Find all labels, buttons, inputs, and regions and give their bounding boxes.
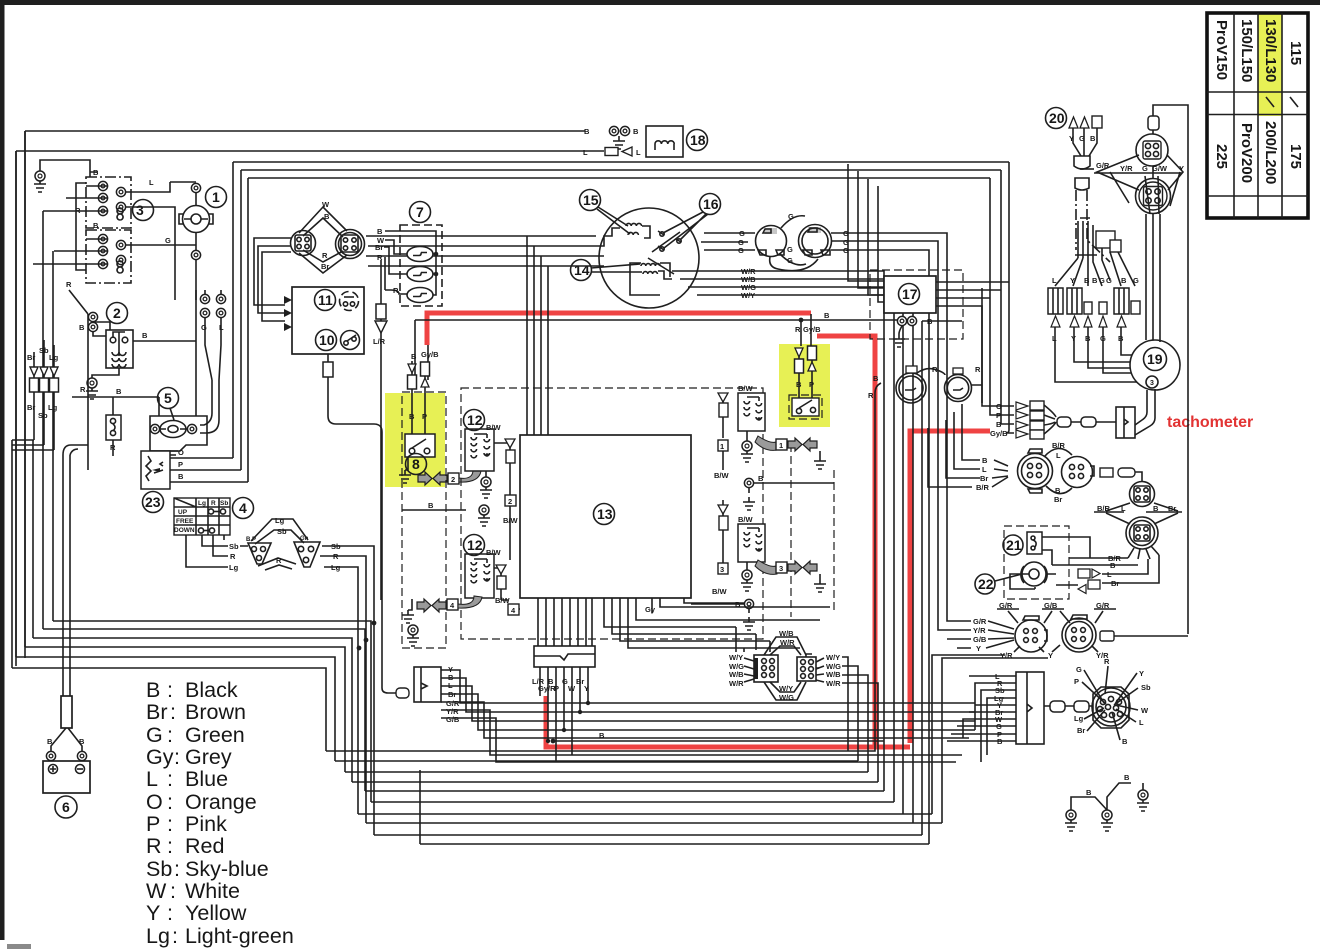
big dashed box ECU: [461, 388, 763, 639]
svg-text:R: R: [230, 552, 236, 561]
chevron pair 2: [418, 472, 432, 485]
svg-text:19: 19: [1147, 351, 1163, 367]
callout 12 lower: [464, 535, 485, 556]
battery cable: [63, 455, 70, 696]
svg-text:R: R: [1104, 657, 1110, 666]
ground coil right upper: [746, 431, 748, 441]
callout 22: [975, 574, 1022, 594]
svg-text:200/L200: 200/L200: [1262, 121, 1279, 184]
labels under triangles: [1052, 334, 1124, 343]
svg-text:Light-green: Light-green: [185, 924, 294, 948]
diode pack left yellow: [411, 361, 413, 364]
stub feed lower bus: [419, 770, 421, 844]
svg-text:B: B: [927, 317, 933, 326]
svg-text:Gy/B: Gy/B: [421, 350, 439, 359]
coil box right lower: [738, 524, 765, 562]
svg-text:18: 18: [690, 132, 706, 148]
anode leads: [1069, 116, 1102, 128]
svg-text:W: W: [322, 200, 330, 209]
W-group connector right: [797, 654, 819, 681]
W feeds from ECU bends: [736, 627, 770, 652]
svg-text:Grey: Grey: [185, 745, 232, 769]
10pin step wires left: [947, 676, 1004, 762]
rectifier leads left: [848, 164, 884, 302]
svg-text::: :: [172, 924, 178, 948]
svg-text::: :: [167, 767, 173, 791]
svg-text:Lg: Lg: [146, 924, 170, 948]
callout 16: [663, 194, 721, 249]
svg-text:6: 6: [62, 799, 70, 815]
svg-text:Y/R: Y/R: [1120, 164, 1133, 173]
svg-text:P: P: [146, 812, 160, 836]
svg-text:Sb: Sb: [1141, 683, 1151, 692]
svg-text:16: 16: [703, 196, 719, 212]
ground coil right lower: [746, 562, 748, 570]
left harness verticals: [12, 131, 53, 668]
trim connector round B: [1062, 615, 1096, 652]
svg-text:W/G: W/G: [779, 693, 794, 702]
wire top feed B: [16, 131, 604, 666]
chevron pair 3: [755, 560, 777, 574]
svg-text:11: 11: [318, 292, 333, 308]
fuse holder row: [1048, 288, 1140, 314]
CDI bottom lead: [327, 354, 329, 362]
ground top-left: [34, 171, 46, 192]
ground under terminal pair: [613, 136, 625, 149]
wire R relay down: [87, 314, 89, 470]
fuse feeds left: [384, 240, 407, 294]
svg-text:Br: Br: [1077, 726, 1085, 735]
page top border bar: [0, 0, 1320, 5]
battery 6: [43, 761, 90, 793]
wire L from switch3 to key: [126, 182, 196, 300]
svg-text:B: B: [377, 227, 383, 236]
svg-text:Lg: Lg: [275, 516, 285, 525]
svg-text:W/R: W/R: [826, 679, 841, 688]
svg-text:B/R: B/R: [1052, 441, 1066, 450]
svg-text:G/R: G/R: [973, 617, 987, 626]
svg-text:Sb: Sb: [38, 411, 48, 420]
svg-text:B: B: [824, 311, 830, 320]
wire GR left stub: [1080, 168, 1094, 170]
svg-text:R: R: [322, 251, 328, 260]
svg-text:L: L: [1052, 276, 1057, 285]
engine ground trio: [1065, 810, 1077, 831]
pulser coils 14: [630, 263, 672, 295]
svg-text:B: B: [599, 731, 605, 740]
trim loop wires Lg Sb R: [240, 519, 308, 570]
wire 19 to tach connector: [1135, 389, 1155, 435]
PTT motor: [1010, 562, 1056, 589]
svg-text:7: 7: [416, 204, 424, 220]
callout 12 upper: [464, 410, 485, 431]
svg-text:130/L130: 130/L130: [1262, 19, 1279, 82]
svg-text:225: 225: [1213, 144, 1230, 169]
highlight over starter relay right: [779, 344, 830, 427]
svg-text:22: 22: [978, 576, 994, 592]
svg-text:Sb: Sb: [220, 500, 228, 507]
svg-text:15: 15: [583, 192, 599, 208]
wire loop over top: [1153, 105, 1188, 634]
svg-text:150/L150: 150/L150: [1238, 19, 1255, 82]
trim wires to right: [320, 546, 374, 835]
svg-text:B/W: B/W: [503, 516, 519, 525]
svg-text:Brown: Brown: [185, 700, 246, 724]
svg-text:B/W: B/W: [714, 471, 730, 480]
svg-text:5: 5: [164, 390, 172, 406]
connector loop wires W B R Br: [299, 207, 347, 273]
svg-text:L/R: L/R: [373, 337, 386, 346]
svg-text:W/R: W/R: [729, 679, 744, 688]
svg-text:B/W: B/W: [486, 423, 502, 432]
triangles below fuse row: [1051, 316, 1126, 327]
svg-text:B: B: [1092, 276, 1098, 285]
junction dots trim bus: [372, 621, 377, 626]
trim sender connectors G group: [999, 601, 1110, 610]
fan to fuse row: [1055, 248, 1135, 286]
diode pack right yellow: [795, 348, 803, 357]
svg-text:B: B: [1121, 276, 1127, 285]
svg-text:G: G: [738, 246, 744, 255]
svg-text:B: B: [873, 374, 879, 383]
terminal B right: [744, 478, 753, 487]
svg-text:Red: Red: [185, 834, 224, 858]
svg-text:B: B: [1124, 773, 1130, 782]
svg-text:Br: Br: [980, 474, 988, 483]
trim sender YR drops to bus: [932, 655, 1048, 823]
svg-text:2: 2: [451, 475, 455, 484]
motor link arrows: [1035, 569, 1100, 594]
callout 13: [594, 504, 615, 525]
bottom bus long lines: [326, 751, 942, 844]
svg-text:Orange: Orange: [185, 790, 257, 814]
svg-text:Y: Y: [1139, 669, 1144, 678]
stator wires to left connectors: [366, 236, 604, 266]
wires B/R B L Br to 21 22: [1052, 555, 1159, 583]
svg-text:Y: Y: [1179, 164, 1184, 173]
svg-text:W/Y: W/Y: [729, 653, 743, 662]
W labels right: [826, 653, 841, 688]
W-group connector left: [754, 655, 778, 682]
wires from trim table down: [186, 535, 228, 567]
svg-text:10: 10: [319, 332, 335, 348]
svg-text:G/B: G/B: [446, 715, 460, 724]
callout 7: [410, 202, 431, 223]
red highlight wire: bottom Gy/B bus: [546, 696, 910, 747]
10pin pin labels: [1074, 657, 1151, 746]
svg-text:Y: Y: [976, 644, 981, 653]
starter motor 5: [150, 397, 207, 455]
rectifier leads right: [936, 282, 1009, 403]
svg-text:W/R: W/R: [780, 638, 795, 647]
svg-text::: :: [167, 901, 173, 925]
svg-text:R: R: [868, 391, 874, 400]
frame drop wires joining OPB stack: [982, 403, 1014, 433]
ground chevron 4: [408, 599, 412, 610]
sleeve: [1075, 178, 1089, 190]
svg-text:20: 20: [1049, 110, 1065, 126]
fuse box 7 dashed: [400, 225, 442, 306]
svg-text:Lg: Lg: [1074, 714, 1084, 723]
svg-text:B/W: B/W: [486, 548, 502, 557]
svg-text:R: R: [333, 552, 339, 561]
svg-text:B: B: [633, 127, 639, 136]
inner dashed col right: [791, 444, 834, 617]
starter relay right dashed: [789, 395, 822, 419]
svg-text:R: R: [66, 280, 72, 289]
W labels left: [729, 653, 744, 688]
svg-text:4: 4: [239, 500, 247, 516]
plug lead upper: [494, 439, 510, 443]
right vertical drops to bottom bus: [921, 321, 923, 835]
svg-text:Lg: Lg: [229, 563, 239, 572]
svg-text::: :: [167, 723, 173, 747]
chevron pair 1: [755, 436, 777, 450]
svg-text:R: R: [377, 253, 383, 262]
svg-text:G/R: G/R: [1096, 161, 1110, 170]
switch 3 contacts upper: [98, 181, 125, 220]
svg-text:Sb: Sb: [331, 542, 341, 551]
wire B from relay to right: [133, 290, 196, 416]
svg-text:L: L: [1107, 570, 1112, 579]
highlight table column 130/L130: [1258, 13, 1282, 116]
svg-text:Gy: Gy: [645, 605, 656, 614]
svg-text:Yellow: Yellow: [185, 901, 247, 925]
svg-text:8: 8: [412, 456, 420, 472]
svg-text:23: 23: [145, 494, 161, 510]
callout 8: [406, 454, 427, 475]
svg-text:B: B: [996, 420, 1002, 429]
leads converge: [1073, 128, 1097, 156]
key switch contact block: [200, 294, 225, 332]
svg-text:B: B: [47, 737, 53, 746]
chevron pair 4: [417, 599, 431, 612]
dashed box around col 8: [402, 392, 446, 648]
bottom-left bus lines staircase: [12, 621, 371, 802]
wires to lamp 19: [1055, 327, 1146, 382]
round 10pin connector: [1092, 687, 1130, 728]
inline connector oval: [396, 688, 409, 698]
loop labels BR L B Br: [1044, 448, 1072, 493]
svg-text:UP: UP: [178, 509, 188, 516]
callout 11: [315, 290, 336, 311]
svg-text:Gy: Gy: [146, 745, 174, 769]
frame verticals right drop: [982, 162, 1009, 430]
svg-text:B: B: [79, 737, 85, 746]
svg-text:R: R: [146, 834, 162, 858]
svg-text:Sky-blue: Sky-blue: [185, 857, 269, 881]
svg-text:G: G: [1142, 164, 1148, 173]
svg-text:Lg: Lg: [48, 403, 58, 412]
svg-text:B: B: [324, 212, 330, 221]
CDI unit box 10 11: [292, 287, 364, 354]
svg-text:W/B: W/B: [779, 629, 794, 638]
svg-text:B: B: [1110, 561, 1116, 570]
arrow connectors stack: [1016, 401, 1044, 439]
model table frame: [1207, 13, 1308, 218]
harness couplers right: [1044, 701, 1093, 712]
switch symbol: [341, 331, 360, 350]
sensor lower round connector: [1126, 517, 1158, 549]
svg-text:W/Y: W/Y: [779, 684, 793, 693]
tachometer connector: [1116, 407, 1135, 438]
trim connector round A: [1015, 616, 1047, 652]
drops to starter relay right: [801, 314, 811, 346]
svg-text:Blue: Blue: [185, 767, 228, 791]
callout 10: [316, 330, 337, 351]
YR Y YR labels below: [1000, 651, 1109, 660]
svg-text::: :: [174, 857, 180, 881]
relay terminals: [88, 312, 97, 321]
fuse bus right: [385, 231, 436, 295]
callout 23: [143, 492, 164, 513]
lighting coil 15: [596, 223, 650, 246]
svg-text:B: B: [1086, 788, 1092, 797]
CDI feed chevrons: [254, 238, 291, 321]
gauge meter B: [945, 368, 972, 402]
page left border bar: [0, 0, 5, 940]
svg-text:B: B: [142, 331, 148, 340]
lamp unit 19: [1130, 340, 1180, 390]
svg-text:3: 3: [779, 564, 783, 573]
svg-text:White: White: [185, 879, 240, 903]
link to sensor: [1100, 468, 1142, 482]
svg-text:2: 2: [113, 305, 121, 321]
wire B/W fuse col right: [722, 395, 724, 438]
wires O P B from sender: [170, 458, 248, 482]
svg-text:Br: Br: [1111, 579, 1119, 588]
fuse ovals: [407, 247, 433, 262]
thermo connector round big: [1018, 449, 1053, 493]
svg-text:G: G: [787, 256, 793, 265]
PTT dashed box: [1004, 526, 1069, 599]
svg-text::: :: [167, 834, 173, 858]
svg-text:17: 17: [902, 286, 918, 302]
svg-text:R: R: [975, 365, 981, 374]
svg-text::: :: [167, 790, 173, 814]
svg-text:Br: Br: [375, 243, 383, 252]
fuse Sb: [38, 346, 49, 445]
svg-text:B: B: [79, 323, 85, 332]
W fan wires: [744, 658, 824, 682]
svg-text:3: 3: [136, 202, 144, 218]
wire B loop: [402, 509, 466, 511]
PTT switch wires: [1042, 537, 1090, 565]
G group labels left: [973, 617, 987, 653]
svg-text:3: 3: [720, 565, 724, 574]
svg-text:Gy/B: Gy/B: [803, 325, 821, 334]
main R fuse drop: [380, 260, 382, 304]
trim connector left triangle: [246, 537, 271, 564]
svg-text:L: L: [1139, 718, 1144, 727]
svg-text:Gy/B: Gy/B: [990, 429, 1008, 438]
diamond labels: [1106, 503, 1178, 524]
svg-text:B: B: [1084, 276, 1090, 285]
svg-text:Y: Y: [1070, 276, 1075, 285]
relay coil ground: [92, 368, 119, 378]
fan wires below sensor: [1128, 546, 1159, 559]
remote harness connector left: [414, 667, 441, 702]
svg-text:P: P: [996, 411, 1001, 420]
G wires right to drop: [831, 233, 959, 844]
callout 17: [899, 284, 920, 305]
svg-text:G/W: G/W: [1152, 164, 1168, 173]
svg-text:B: B: [116, 387, 122, 396]
svg-text:2: 2: [508, 497, 512, 506]
main frame wires nested: [233, 162, 1009, 178]
bus wires mid right: [553, 740, 884, 742]
callout 15: [580, 190, 631, 235]
svg-text:G: G: [1076, 665, 1082, 674]
svg-text:O: O: [178, 448, 184, 457]
svg-text:L: L: [982, 465, 987, 474]
svg-text:21: 21: [1006, 537, 1022, 553]
svg-text:R: R: [276, 556, 282, 565]
rectifier 17 dashed zone: [870, 270, 963, 339]
cable top hook: [63, 445, 88, 455]
W-group hex wires: [764, 637, 806, 700]
svg-text::: :: [167, 678, 173, 702]
legend colour code text: [146, 678, 294, 948]
coil box right upper: [738, 393, 765, 431]
flywheel magneto circle: [599, 208, 699, 308]
svg-text:ProV150: ProV150: [1213, 20, 1230, 80]
neutral switch small box: [106, 397, 121, 456]
svg-text:G: G: [146, 723, 163, 747]
svg-text:Lg: Lg: [198, 500, 206, 507]
svg-text:Green: Green: [185, 723, 245, 747]
right mid verticals to bottom bus: [884, 340, 913, 823]
callout 21: [1003, 535, 1023, 555]
harness down from connectors: [1146, 214, 1160, 342]
svg-text:Y: Y: [146, 901, 160, 925]
svg-text:12: 12: [467, 412, 483, 428]
svg-text:B: B: [982, 456, 988, 465]
O P B GyB labels: [990, 402, 1008, 438]
svg-text:B/W: B/W: [712, 587, 728, 596]
wire R diagonal to relay: [69, 290, 110, 336]
red highlight wire: key-switch to Gy/B drop: [427, 313, 811, 345]
svg-text:Y: Y: [1048, 651, 1053, 660]
svg-text:1: 1: [212, 189, 220, 205]
callout 2: [107, 303, 128, 324]
svg-text:tachometer: tachometer: [1167, 414, 1253, 431]
charge coil 16 marks: [648, 231, 681, 274]
wires from switch 3: [33, 172, 196, 270]
svg-text:Sb: Sb: [229, 542, 239, 551]
red highlight wire: tachometer Gy/B feed: [910, 431, 990, 743]
svg-text:B/W: B/W: [738, 384, 754, 393]
svg-text:R: R: [932, 365, 938, 374]
switch 3 contacts lower: [98, 234, 125, 273]
wire G L down to cable: [200, 318, 221, 433]
ECU pin L-bends right: [604, 598, 830, 648]
svg-text:Black: Black: [185, 678, 238, 702]
plug lead lower: [494, 565, 501, 568]
red highlight wire: Gy/B run down right column: [817, 336, 875, 745]
svg-text:ProV200: ProV200: [1238, 123, 1255, 183]
fan to tach couplers: [1044, 405, 1056, 434]
grounds 12 upper: [485, 471, 487, 477]
svg-text:G: G: [1099, 276, 1105, 285]
W feeds right to verticals: [842, 657, 878, 782]
svg-text:O: O: [146, 790, 163, 814]
svg-text:13: 13: [597, 506, 613, 522]
svg-text:L: L: [146, 767, 158, 791]
svg-text:G: G: [201, 323, 207, 332]
callout 5: [158, 388, 179, 421]
svg-text:Br: Br: [146, 700, 168, 724]
